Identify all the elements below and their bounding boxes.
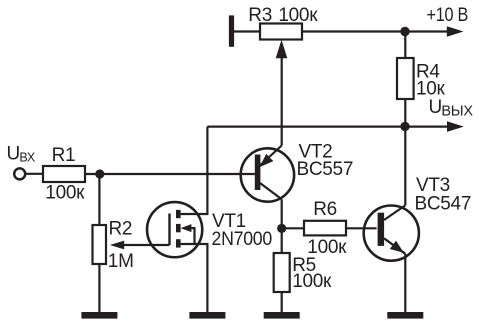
svg-text:R2: R2 <box>109 218 133 239</box>
arrow R3 wiper <box>276 40 288 59</box>
resistor R4 <box>397 58 414 99</box>
VT1 source bar <box>176 239 181 247</box>
VT1 source lead <box>181 244 208 313</box>
wire R3 to +10V arrow <box>302 30 449 32</box>
wire R6 to VT3 base <box>346 227 377 229</box>
node VT2 collector (junction dot) <box>277 224 286 233</box>
wire R1 to VT2 base <box>85 173 255 175</box>
VT1 body-to-source wire <box>191 228 195 244</box>
node gate (junction dot) <box>95 169 104 178</box>
VT1 gate line <box>168 214 170 246</box>
resistor R3 <box>260 24 302 40</box>
svg-text:UВЫХ: UВЫХ <box>429 97 474 120</box>
VT2 base bar <box>255 155 261 191</box>
VT3 emitter wire <box>384 238 405 254</box>
terminal input <box>14 168 25 179</box>
transistor VT1 (2N7000) <box>110 127 208 313</box>
resistor R6 <box>304 221 346 236</box>
svg-text:R1: R1 <box>52 145 76 166</box>
wire R2 to ground <box>98 264 100 313</box>
VT3 emitter arrow (NPN) <box>390 241 404 253</box>
ground (VT3 emitter) <box>387 312 423 319</box>
arrow Uout <box>447 121 464 132</box>
VT2 emitter arrow (PNP) <box>259 154 273 167</box>
resistor R1 <box>43 166 85 182</box>
wire chassis to R3 <box>234 30 260 32</box>
arrow gate to R2 wiper <box>110 241 124 250</box>
ground (VT1 source) <box>189 312 225 319</box>
svg-text:100к: 100к <box>292 271 332 292</box>
svg-text:1M: 1M <box>108 251 134 272</box>
svg-text:UВХ: UВХ <box>7 144 36 165</box>
svg-text:2N7000: 2N7000 <box>212 229 273 250</box>
resistor R2 <box>93 225 107 264</box>
wire node to R2 <box>98 174 100 225</box>
wire VT3 collector to output node <box>404 127 406 206</box>
VT2 body circle <box>241 148 294 201</box>
resistor R5 <box>274 253 290 292</box>
VT2 emitter wire <box>259 146 281 167</box>
node R4 top (junction dot) <box>400 27 409 36</box>
VT1 drain bar <box>176 210 181 218</box>
wire node to R6 <box>282 227 304 229</box>
svg-text:BC547: BC547 <box>415 194 472 215</box>
svg-text:BC557: BC557 <box>297 159 354 180</box>
wire node to R4 <box>404 32 406 59</box>
VT2 collector wire <box>260 183 282 199</box>
arrow +10V <box>447 26 464 37</box>
VT3 collector wire <box>384 205 405 220</box>
VT1 body bar <box>176 224 181 232</box>
wire output line <box>207 125 449 127</box>
VT3 body circle <box>364 206 419 261</box>
svg-text:+10 В: +10 В <box>427 5 469 26</box>
VT1 drain lead <box>181 127 208 214</box>
wire VT2 collector down <box>281 199 283 253</box>
chassis bar (top left) <box>229 15 234 46</box>
wire input to R1 <box>26 173 44 175</box>
VT1 body arrow <box>181 224 192 232</box>
ground (R2) <box>81 312 117 319</box>
svg-text:R3: R3 <box>248 5 272 26</box>
VT1 gate lead <box>123 244 170 246</box>
svg-text:R6: R6 <box>313 199 337 220</box>
ground (R5) <box>264 312 300 319</box>
transistor VT2 (BC557) <box>241 146 294 202</box>
wire R5 to ground <box>281 292 283 313</box>
transistor VT3 (BC547) <box>364 205 419 260</box>
svg-text:100к: 100к <box>278 5 318 26</box>
VT3 base bar <box>378 213 385 246</box>
wire R4 to output node <box>404 99 406 127</box>
svg-text:100к: 100к <box>45 183 85 204</box>
wire VT3 emitter to ground <box>404 254 406 313</box>
wire VT2 emitter to R3 wiper <box>281 56 283 146</box>
node output (junction dot) <box>400 122 409 131</box>
VT1 body circle <box>147 202 202 257</box>
